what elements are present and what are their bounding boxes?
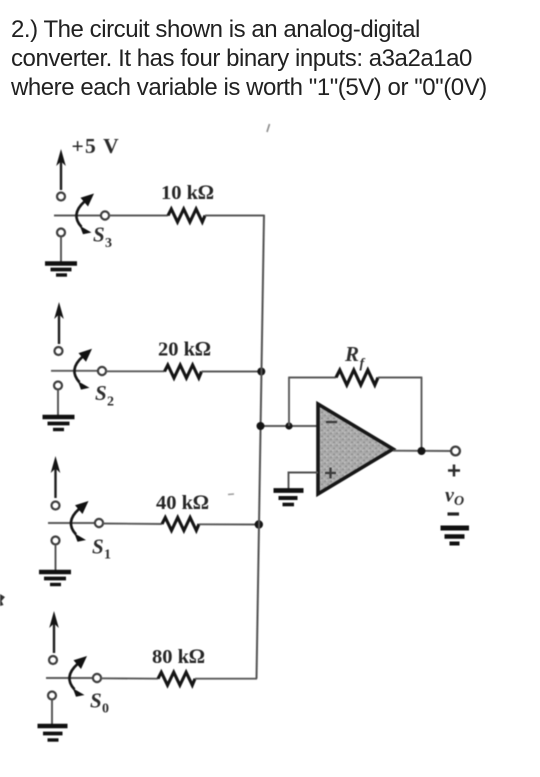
power arrow (S1 throw to +5V) <box>51 456 61 498</box>
resistor 20 kOhm <box>165 365 202 378</box>
svg-text:S: S <box>90 689 102 713</box>
op-amp U1 <box>318 404 393 494</box>
wire feedback top right segment <box>378 377 422 379</box>
scan artifact tick <box>267 124 270 132</box>
label - output <box>448 512 460 515</box>
ground of output <box>441 528 470 544</box>
wire 80k to bus corner <box>195 678 257 680</box>
wire S3 pole to 10k <box>109 215 168 217</box>
ground of S1 <box>39 545 71 585</box>
svg-text:S: S <box>92 535 104 559</box>
wire 10k to bus <box>205 215 264 217</box>
svg-text:10 kΩ: 10 kΩ <box>161 182 214 204</box>
scan artifact dash <box>228 493 234 496</box>
switch S0 pole terminal <box>93 674 101 682</box>
wire S0 pole to 80k <box>101 677 158 679</box>
switch S0 motion arrow <box>69 656 87 697</box>
terminal +5V side of S0 <box>49 656 57 664</box>
label S2 <box>95 381 114 410</box>
power arrow (S3 throw to +5V) <box>56 149 66 190</box>
switch S1 pole terminal <box>95 519 103 527</box>
svg-text:20 kΩ: 20 kΩ <box>158 339 211 361</box>
wire 40k to bus <box>199 523 259 525</box>
label S3 <box>93 223 112 252</box>
terminal ground side of S1 <box>52 537 60 545</box>
resistor Rf <box>336 370 378 385</box>
switch S0 blade <box>46 677 93 679</box>
wire op-amp output <box>393 450 451 452</box>
label 80 kOhm <box>152 646 205 668</box>
switch S3 motion arrow <box>76 194 94 235</box>
wire feedback left vertical <box>288 378 290 427</box>
junction dot bus row2 <box>257 368 265 376</box>
resistor 80 kOhm <box>158 672 195 685</box>
wire noninverting input <box>289 473 319 490</box>
resistor 40 kOhm <box>162 518 199 531</box>
label 40 kOhm <box>156 492 209 514</box>
power arrow (S0 throw to +5V) <box>49 611 59 653</box>
label 20 kOhm <box>158 339 211 361</box>
junction dot bus inverting tap <box>257 422 265 430</box>
ground of S3 <box>45 237 77 276</box>
svg-text:O: O <box>454 494 464 509</box>
svg-text:2: 2 <box>107 395 114 410</box>
bus wire (summing node vertical) <box>257 215 265 679</box>
ground of S0 <box>38 700 68 741</box>
switch S1 blade <box>48 522 95 524</box>
wire S2 pole to 20k <box>106 370 165 372</box>
resistor 10 kOhm <box>168 209 205 222</box>
svg-text:1: 1 <box>104 548 111 563</box>
switch S3 pole terminal <box>101 211 109 219</box>
label S1 <box>92 535 111 563</box>
output terminal vo <box>451 447 460 456</box>
switch S3 blade <box>54 215 101 217</box>
svg-text:+5 V: +5 V <box>72 134 120 158</box>
junction dot output feedback tap <box>418 447 426 455</box>
terminal ground side of S3 <box>57 229 65 237</box>
junction dot bus row3 <box>255 520 263 528</box>
svg-text:S: S <box>95 381 107 405</box>
svg-text:80 kΩ: 80 kΩ <box>152 646 205 668</box>
svg-text:f: f <box>360 357 366 372</box>
switch S1 motion arrow <box>71 501 89 542</box>
terminal +5V side of S3 <box>57 193 65 201</box>
svg-text:40 kΩ: 40 kΩ <box>156 492 209 514</box>
switch S2 motion arrow <box>74 349 92 390</box>
svg-text:3: 3 <box>105 236 112 251</box>
terminal ground side of S0 <box>48 692 56 700</box>
label +5 V <box>72 134 120 158</box>
switch S2 blade <box>51 370 98 372</box>
svg-text:R: R <box>344 342 359 366</box>
junction dot feedback tap <box>285 422 292 429</box>
terminal +5V side of S2 <box>55 347 63 355</box>
terminal ground side of S2 <box>54 382 62 390</box>
scan artifact left edge mark <box>0 594 5 606</box>
wire S1 pole to 40k <box>103 523 162 526</box>
label Rf <box>344 342 366 372</box>
power arrow (S2 throw to +5V) <box>54 302 64 344</box>
label vO <box>445 485 464 510</box>
ground of S2 <box>43 390 75 430</box>
label + output <box>448 465 460 477</box>
wire 20k to bus <box>202 371 263 373</box>
wire feedback right vertical <box>421 378 423 452</box>
ground of noninverting input <box>274 491 304 505</box>
svg-text:0: 0 <box>102 702 109 717</box>
switch S2 pole terminal <box>98 367 106 375</box>
svg-text:S: S <box>93 223 105 247</box>
label 10 kOhm <box>161 182 214 204</box>
wire bus to inverting input <box>261 425 319 427</box>
label S0 <box>90 689 109 717</box>
wire feedback top left segment <box>288 377 336 379</box>
terminal +5V side of S1 <box>52 502 60 510</box>
